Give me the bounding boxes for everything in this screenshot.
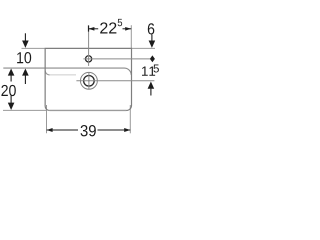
dimension 10 bottom arrow with stem <box>22 69 29 76</box>
wire extension of bottom edge to the left <box>3 109 46 111</box>
label 10 <box>17 52 31 63</box>
wire drain hole vertical centreline <box>88 72 90 89</box>
wire tap hole vertical centreline <box>88 25 90 66</box>
dimension 6 arrow with stem <box>151 35 153 41</box>
node inner ledge line with rounded right end <box>3 68 131 75</box>
wire tap hole horizontal centreline <box>83 58 150 60</box>
label 6 <box>148 23 155 34</box>
dimension 39 line <box>47 129 78 131</box>
label 20 <box>1 85 15 96</box>
node inner bowl left fillet arc <box>45 71 49 75</box>
dimension 39 right arrow <box>124 128 130 132</box>
wire extension for 39 left end <box>46 105 48 133</box>
label 11.5 superscript <box>153 64 158 72</box>
label 22.5 main <box>100 22 116 33</box>
label 11.5 main <box>142 67 155 76</box>
dimension 10 top arrow with stem <box>24 33 26 41</box>
dimension 22.5 line <box>88 28 98 30</box>
wire extension for 39 right end <box>129 105 131 133</box>
dimension 22.5 left tick <box>88 25 90 31</box>
dimension 20 top arrow with stem <box>8 69 15 76</box>
basin outline sides and top <box>45 48 131 110</box>
wire extension for 22.5 right end <box>130 25 132 48</box>
dimension 20 bottom arrow with stem <box>10 96 12 104</box>
basin bottom edge <box>49 109 126 111</box>
node faint inner bowl outline <box>45 71 76 75</box>
wire extension of top edge to the left <box>22 47 45 49</box>
dimension 22.5 right arrow <box>125 27 131 31</box>
dimension 11.5 bottom arrow with stem <box>148 82 155 89</box>
drain hole centre dot <box>88 80 90 82</box>
dimension 6 / 11.5 shared diamond <box>150 55 155 62</box>
tap hole circle <box>86 56 92 62</box>
wire extension of top edge to the right <box>132 47 155 49</box>
dimension 22.5 left arrow <box>88 27 94 31</box>
dimension 39 left arrow <box>47 128 53 132</box>
label 39 <box>81 125 96 136</box>
drain hole outer circle <box>80 72 97 89</box>
drain hole inner ring <box>84 76 95 87</box>
wire drain hole horizontal centreline <box>76 80 154 82</box>
label 22.5 superscript <box>118 19 122 26</box>
